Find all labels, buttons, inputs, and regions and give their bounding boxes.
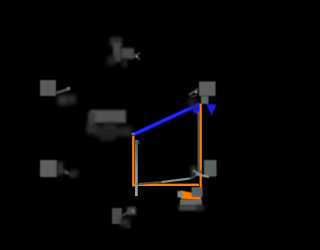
bond C-N (dark connector to junction) xyxy=(98,128,131,134)
bond P=N vertical left (orange) glow xyxy=(131,136,135,187)
bond P-P horizontal (orange) core xyxy=(133,184,199,186)
bond H-C (bottom middle diagonal) xyxy=(120,207,136,228)
node N1 junction highlight xyxy=(132,133,135,136)
atom label H (bottom right gray bar) xyxy=(178,191,205,211)
node tick right of orange start xyxy=(138,140,140,144)
atom cluster C: central H3C label band xyxy=(87,110,132,137)
bond squiggle (right middle) xyxy=(193,171,209,178)
wedge bond N-H (blue triangle) xyxy=(207,104,217,116)
wedge bond P-C (orange, lower right) xyxy=(181,191,201,201)
bond second line (gray parallel, left vertical) xyxy=(135,140,138,196)
bond H-C (upper left diagonal) xyxy=(56,89,70,94)
bond second line (gray, horizontal bright part) xyxy=(162,179,190,183)
atom cluster A: top methyl group blob xyxy=(107,37,134,67)
atom label H (top, small glyph) xyxy=(133,53,140,60)
atom label C (right middle gray block) xyxy=(191,160,217,177)
atom label NH (top right gray block) xyxy=(199,82,216,105)
node C vertex (upper left) xyxy=(58,87,76,105)
atom label H (lower left) xyxy=(40,160,57,177)
atom label C (gray block over lower-right bend) xyxy=(192,187,203,197)
bond diagonal to C label (lower right) xyxy=(190,171,202,179)
bond squiggle (top right, toward label) xyxy=(188,89,198,106)
bond end blob (blue, under H label) xyxy=(193,104,200,116)
atom label H (upper left) xyxy=(40,80,56,96)
bond N-N (blue diagonal) core xyxy=(134,104,200,135)
node C texture (below label band) xyxy=(95,128,117,137)
bond second line (gray parallel, right vertical) xyxy=(198,111,200,174)
bond P=N vertical left (orange) core xyxy=(132,136,134,187)
bond N-P vertical right (orange) glow xyxy=(199,104,203,191)
bond H-C (lower left) xyxy=(57,162,78,177)
bond second line (gray, horizontal dim part) xyxy=(137,182,162,184)
bond N-N (blue diagonal) glow xyxy=(134,104,200,135)
bond N-P vertical right (orange) core xyxy=(200,104,202,191)
bond P-P horizontal (orange) glow xyxy=(133,183,199,187)
atom label H (bottom middle) xyxy=(112,208,122,224)
